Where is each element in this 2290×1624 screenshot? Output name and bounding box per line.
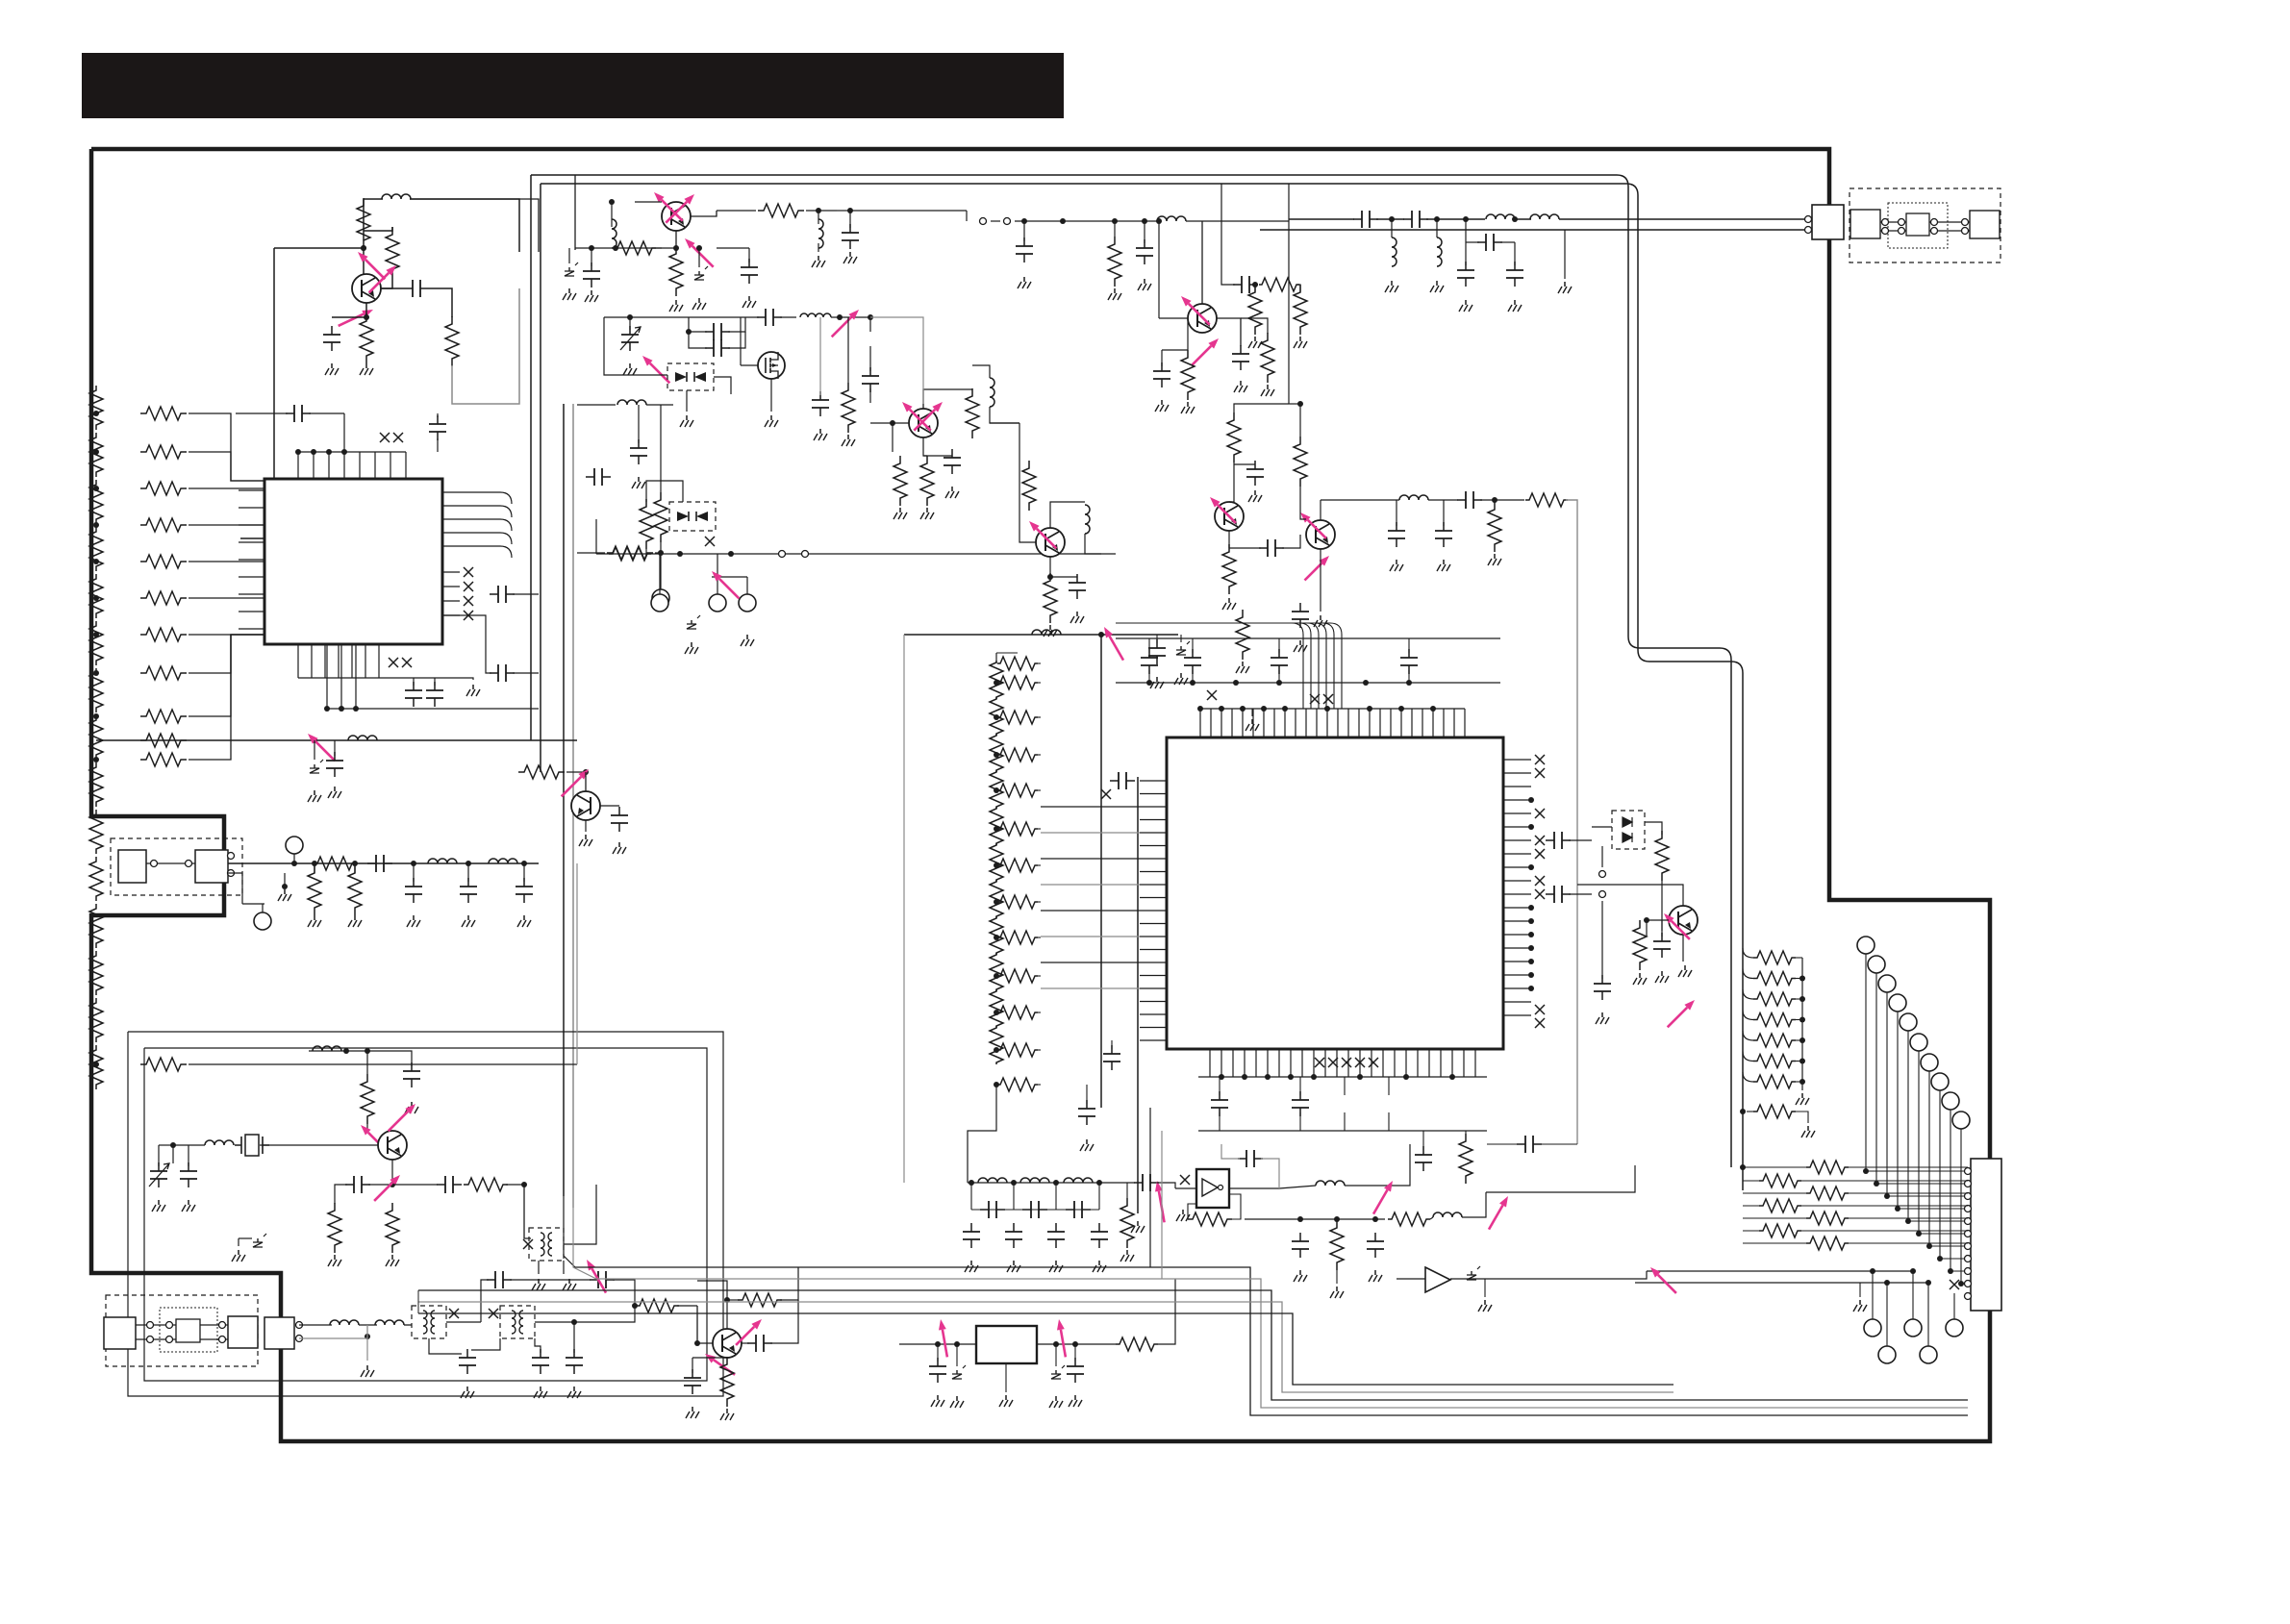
wire <box>1408 670 1410 683</box>
IC U1 bottom pin <box>338 644 340 678</box>
IC U2 left pin <box>1140 975 1167 977</box>
wire <box>200 1338 228 1340</box>
wire <box>746 577 748 594</box>
wire <box>1228 531 1230 548</box>
ground <box>951 487 953 491</box>
zz mark <box>257 1238 259 1242</box>
resistor R35 <box>1294 437 1307 487</box>
bus stepped <box>731 1267 1968 1415</box>
test point <box>1931 1073 1949 1090</box>
row wire <box>1743 1192 1806 1194</box>
wire <box>566 771 586 773</box>
wire <box>600 805 619 807</box>
bus curve <box>1116 623 1334 709</box>
wire <box>937 1344 939 1362</box>
wire <box>850 210 967 212</box>
wire <box>1859 1283 1861 1297</box>
wire <box>335 1185 347 1204</box>
inductor L19 <box>1486 214 1515 219</box>
resistor ladder Rv <box>89 998 103 1042</box>
junction <box>170 1142 176 1148</box>
junction <box>521 1182 527 1187</box>
junction <box>994 862 999 868</box>
inductor L26 <box>1433 1212 1462 1217</box>
IC U2 left pin <box>1140 832 1167 834</box>
junction <box>1863 1168 1869 1174</box>
tp wire <box>1875 973 1877 1184</box>
IC U2 top pin <box>1273 709 1275 737</box>
resistor Rh <box>997 822 1038 836</box>
resistor R5 <box>140 734 187 747</box>
junction <box>1512 216 1518 222</box>
capacitor C7 <box>413 682 415 707</box>
wire <box>1144 221 1145 243</box>
wire <box>1344 1077 1346 1095</box>
IC U2 left pin <box>1140 987 1167 989</box>
ground <box>1074 1395 1076 1400</box>
IC U2 left pin <box>1140 936 1167 937</box>
wire <box>242 903 264 905</box>
arrow <box>1192 346 1212 366</box>
junction <box>411 861 416 866</box>
wire <box>611 202 613 227</box>
junction <box>1528 932 1534 937</box>
resistor Rh <box>140 445 187 459</box>
capacitor C72 <box>1066 1209 1091 1211</box>
IC U2 top pin <box>1337 709 1339 737</box>
wire <box>1038 828 1041 830</box>
x no-connect <box>389 658 398 667</box>
IC U1 right pin <box>442 586 460 587</box>
test point <box>651 594 668 612</box>
wire <box>728 332 745 348</box>
wire base <box>1159 317 1188 319</box>
arrow <box>1159 1191 1165 1223</box>
antenna dashed box <box>111 838 242 895</box>
resistor R27 <box>1181 350 1195 400</box>
connector pin <box>296 1322 303 1329</box>
capacitor C14 <box>467 878 469 903</box>
capacitor C67 <box>1156 639 1158 664</box>
ground <box>314 915 315 920</box>
connector pin <box>1965 1168 1972 1175</box>
IC U2 left pin <box>1140 1013 1167 1015</box>
resistor Rh <box>997 969 1038 983</box>
wire <box>1320 549 1321 612</box>
wire <box>1592 826 1612 828</box>
IC U2 right pin <box>1503 1001 1531 1003</box>
wire <box>1796 998 1802 1000</box>
IC U2 left pin <box>1140 949 1167 951</box>
connector pin <box>1965 1193 1972 1200</box>
ground <box>1013 1261 1015 1265</box>
pin header rail <box>1200 708 1465 710</box>
junction <box>352 861 358 866</box>
junction <box>1398 706 1404 712</box>
wire <box>1157 1183 1175 1188</box>
wire base feed <box>274 247 364 249</box>
junction <box>868 314 873 320</box>
x no-connect <box>1328 1058 1338 1067</box>
junction <box>353 706 359 712</box>
inductor L15 <box>1085 505 1090 534</box>
resistor R26 <box>1108 237 1121 287</box>
resistor ladder Rv <box>89 386 103 430</box>
x no-connect <box>1535 1005 1545 1014</box>
capacitor C26 <box>692 1369 693 1394</box>
resistor R30 <box>640 499 653 549</box>
tp wire h <box>1887 1195 1968 1197</box>
resistor Rh <box>140 518 187 532</box>
inductor L23 <box>1020 1178 1049 1183</box>
wire <box>1074 1344 1076 1362</box>
ground <box>1144 279 1145 284</box>
wire <box>1929 230 1970 232</box>
wire <box>363 248 365 274</box>
wire collector top <box>363 199 365 240</box>
resistor ladder Rv <box>89 433 103 477</box>
wire <box>471 1338 500 1350</box>
IC U2 top pin <box>1411 709 1413 737</box>
IC U1 top pin <box>343 452 345 479</box>
junction <box>93 411 99 416</box>
capacitor C54 <box>1148 649 1150 674</box>
wire <box>899 1343 976 1345</box>
wire <box>413 863 415 882</box>
ground <box>1055 1396 1057 1401</box>
IC U2 bottom pin <box>1209 1049 1211 1077</box>
junction <box>1884 1280 1890 1286</box>
IC U2 top pin <box>1284 709 1286 737</box>
arrow <box>692 246 714 267</box>
IC U2 top pin <box>1400 709 1402 737</box>
capacitor C58 <box>1110 780 1135 782</box>
x no-connect <box>1535 889 1545 899</box>
wire <box>748 248 750 262</box>
row wire <box>1743 1230 1759 1232</box>
test point <box>1942 1092 1959 1110</box>
capacitor C42 <box>1254 461 1256 486</box>
wire <box>613 1280 635 1306</box>
junction <box>627 314 633 320</box>
x no-connect <box>1535 836 1545 845</box>
ground <box>1801 1093 1803 1098</box>
wire <box>1282 535 1300 548</box>
resistor ladder Rv <box>89 574 103 618</box>
resistor R50 <box>1116 1337 1158 1351</box>
test point <box>1920 1346 1937 1363</box>
tp wire h <box>1866 1170 1968 1172</box>
junction <box>1146 680 1152 686</box>
resistor Rh <box>997 859 1038 872</box>
IC U2 bottom pin <box>1255 1049 1257 1077</box>
resistor R24 <box>920 456 934 506</box>
junction <box>1740 1109 1746 1114</box>
wire <box>806 210 837 212</box>
wire <box>712 576 747 578</box>
wire <box>1038 754 1041 756</box>
ground <box>638 477 640 482</box>
wire <box>1661 881 1663 931</box>
wire <box>1126 1183 1128 1198</box>
wire <box>332 316 366 318</box>
IC U1 <box>264 479 442 644</box>
ground <box>1055 1261 1057 1265</box>
mic plug <box>228 1316 258 1348</box>
IC U1 bottom pin long <box>326 644 328 709</box>
test point <box>1904 1319 1922 1337</box>
wire <box>1466 241 1479 243</box>
junction <box>994 1010 999 1015</box>
capacitor C51 <box>1477 241 1502 243</box>
wire <box>971 388 973 389</box>
vertical bus <box>1100 635 1102 1108</box>
wire <box>564 1185 596 1244</box>
junction <box>1098 632 1104 637</box>
arrow <box>910 410 931 431</box>
IC U2 bottom pin <box>1382 1049 1384 1077</box>
resistor Rh <box>140 555 187 568</box>
row wire <box>1743 1242 1806 1244</box>
row wire <box>1849 1166 1968 1168</box>
tp wire <box>1886 992 1888 1196</box>
arrow <box>719 579 740 599</box>
junction <box>93 713 99 719</box>
wire gate <box>741 364 758 366</box>
junction <box>311 449 316 455</box>
bus stepped <box>731 1279 1968 1408</box>
connector pin <box>1965 1181 1972 1187</box>
junction <box>282 884 288 889</box>
junction <box>1799 1059 1805 1064</box>
wire <box>1872 1271 1874 1319</box>
wire <box>1023 221 1025 241</box>
resistor ladder Rv <box>990 989 1003 1028</box>
wire <box>923 437 927 456</box>
wire <box>189 1063 577 1065</box>
tp wire <box>1907 1031 1909 1221</box>
link5 <box>903 635 905 1183</box>
IC U1 bottom pin <box>297 644 299 678</box>
ground <box>585 835 587 839</box>
connector pin <box>228 853 235 860</box>
IC U2 left pin <box>1140 806 1167 808</box>
resistor ladder Rv <box>89 668 103 712</box>
wire <box>991 220 1000 222</box>
rail <box>904 634 1178 636</box>
wire <box>1013 1183 1015 1210</box>
bus corner <box>1617 175 1731 1167</box>
junction <box>1799 976 1805 982</box>
rail <box>1198 1130 1487 1132</box>
vertical bus <box>530 175 532 740</box>
x no-connect <box>1207 690 1217 700</box>
wire <box>847 317 849 383</box>
wire <box>506 1184 524 1186</box>
wire <box>136 1338 176 1340</box>
IC U2 bottom pin <box>1359 1049 1361 1077</box>
ground <box>1228 598 1230 603</box>
ground <box>1098 1261 1100 1265</box>
junction <box>696 245 702 251</box>
capacitor C81 <box>937 1358 939 1383</box>
arrow <box>650 363 670 384</box>
IC U2 top pin <box>1252 709 1254 737</box>
IC U2 left pin <box>1140 845 1167 847</box>
junction <box>1406 680 1412 686</box>
wire <box>717 554 718 594</box>
wire <box>299 1325 367 1338</box>
ground <box>591 290 592 295</box>
mic inner block <box>176 1319 200 1342</box>
ground <box>466 1387 468 1391</box>
wire <box>1289 403 1300 405</box>
wire <box>404 1324 412 1326</box>
arrow <box>1189 304 1210 325</box>
test point <box>1889 994 1906 1012</box>
capacitor C78 <box>1238 1158 1263 1160</box>
capacitor C22 <box>590 1279 615 1281</box>
junction <box>1297 1216 1303 1222</box>
junction <box>1372 1216 1378 1222</box>
junction <box>673 245 679 251</box>
inductor L13 <box>990 378 994 407</box>
diode <box>696 512 708 521</box>
wire <box>698 248 700 267</box>
junction <box>291 861 297 866</box>
connector pin <box>186 861 192 867</box>
connector pin <box>980 218 987 225</box>
wire <box>1085 534 1101 554</box>
wire <box>510 1279 591 1281</box>
capacitor C47 <box>1443 522 1445 547</box>
connector pin <box>219 1337 226 1343</box>
arrow <box>1658 1275 1676 1293</box>
wire <box>1229 1194 1241 1219</box>
resistor ladder Rv <box>89 621 103 665</box>
wire <box>1050 576 1077 578</box>
wire <box>159 1144 173 1146</box>
IC U1 left pin <box>239 559 264 561</box>
test point <box>286 837 303 854</box>
resistor R23 <box>893 456 907 506</box>
inductor L7 <box>205 1140 234 1145</box>
capacitor C55 <box>1192 649 1194 674</box>
wire <box>1234 463 1255 465</box>
wire out <box>392 1184 438 1186</box>
ground <box>748 296 750 301</box>
resistor R21 <box>669 246 683 296</box>
resistor bank Rh <box>1753 992 1796 1006</box>
resistor ladder Rv <box>990 843 1003 882</box>
transistor Q10 <box>1215 502 1244 531</box>
ground <box>1086 1139 1088 1144</box>
left feed <box>564 1196 731 1267</box>
ground <box>1182 1210 1184 1214</box>
resistor R11 <box>348 865 362 915</box>
test point <box>709 594 726 612</box>
wire <box>645 549 647 554</box>
test point <box>1864 1319 1881 1337</box>
left feed4 <box>418 1301 731 1303</box>
wire <box>1450 1271 1647 1279</box>
IC U2 right pin <box>1503 866 1531 868</box>
IC U2 bottom pin <box>1417 1049 1419 1077</box>
ground <box>692 1407 693 1412</box>
bank entry curve <box>1743 1072 1753 1082</box>
inductor L2 <box>348 736 377 740</box>
capacitor C12 <box>367 862 392 864</box>
wire <box>1158 1279 1175 1344</box>
connector pin <box>1965 1256 1972 1262</box>
zz mark <box>698 271 700 275</box>
ground <box>523 915 525 920</box>
IC U2 left wire <box>1041 936 1140 937</box>
resistor ladder Rv <box>990 807 1003 845</box>
IC U1 top pin <box>328 452 330 479</box>
connector pin <box>1965 1281 1972 1287</box>
junction <box>677 551 683 557</box>
IC U2 bottom pin <box>1301 1049 1303 1077</box>
ground <box>334 1255 336 1260</box>
x no-connect <box>464 611 473 620</box>
wire <box>1462 1192 1486 1217</box>
resistor ladder Rv <box>990 697 1003 736</box>
wire <box>726 1300 728 1329</box>
connector pin <box>1965 1231 1972 1237</box>
wire <box>1050 502 1085 528</box>
junction <box>1528 945 1534 951</box>
wire <box>523 863 525 882</box>
IC U2 bottom pin <box>1278 1049 1280 1077</box>
resistor Rh <box>997 676 1038 689</box>
wire <box>780 1267 798 1300</box>
resistor ladder Rv <box>89 715 103 760</box>
junction <box>1449 1074 1455 1080</box>
capacitor C28 <box>748 259 750 284</box>
resistor ladder Rv <box>89 762 103 807</box>
junction <box>954 1341 960 1347</box>
resistor R13 <box>328 1203 341 1253</box>
junction <box>1740 1164 1746 1170</box>
wire <box>563 1261 565 1274</box>
junction <box>365 1334 370 1339</box>
IC U1 top pin <box>313 452 315 479</box>
junction <box>1142 218 1147 224</box>
ground <box>411 1102 413 1107</box>
arrow <box>1668 1008 1688 1028</box>
x mark <box>523 1239 533 1249</box>
resistor ladder Rv <box>990 770 1003 809</box>
test point <box>1857 937 1875 954</box>
bus stepped <box>731 1313 1673 1385</box>
IC U1 left pin <box>239 507 264 509</box>
wire collector <box>691 211 717 216</box>
IC U1 bottom pin <box>351 644 353 678</box>
resistor bank Rh <box>1753 1034 1796 1047</box>
IC U2 right pin <box>1503 893 1531 895</box>
junction <box>1492 497 1497 503</box>
wire <box>343 413 345 452</box>
wire <box>990 407 1019 423</box>
junction <box>890 420 895 426</box>
x mark <box>1950 1280 1959 1289</box>
vertical bus <box>1137 777 1139 1213</box>
wire <box>1037 1343 1116 1345</box>
capacitor C41 <box>1076 574 1078 599</box>
resistor R34 <box>1222 544 1236 594</box>
IC U1 left pin <box>239 628 264 630</box>
